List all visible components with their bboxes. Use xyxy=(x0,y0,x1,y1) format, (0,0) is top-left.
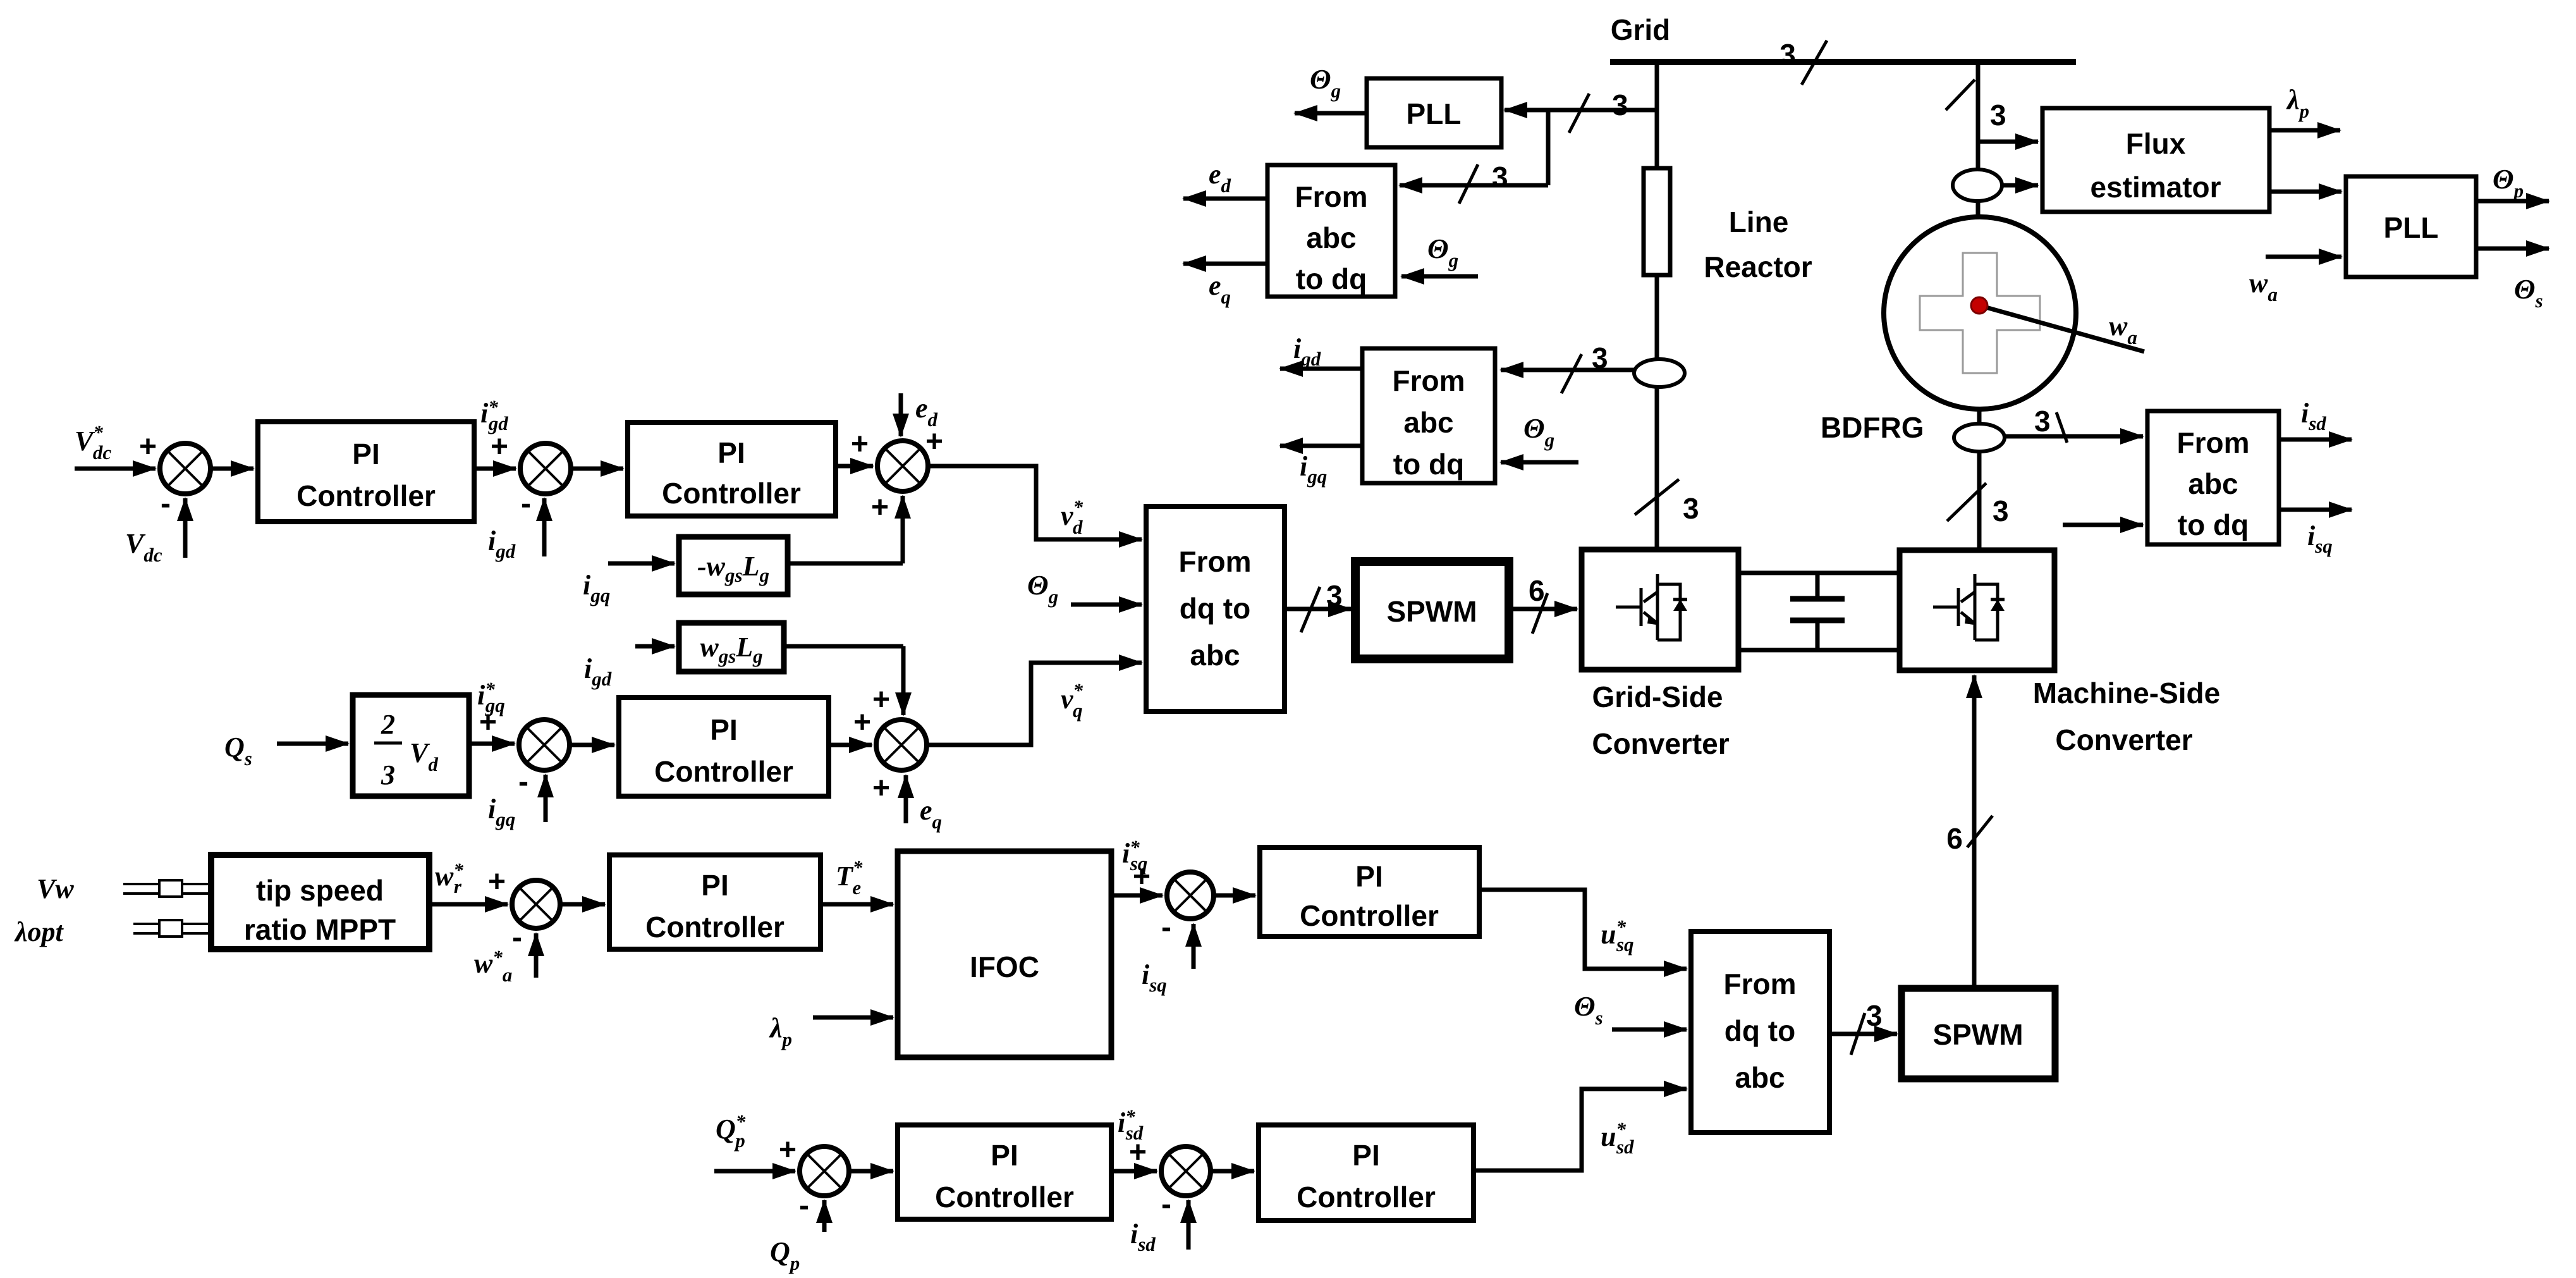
wire theta_p output xyxy=(2476,199,2549,204)
svg-text:Converter: Converter xyxy=(2055,723,2192,756)
svg-text:-: - xyxy=(512,921,522,954)
node summing junction Vdc xyxy=(160,443,211,494)
component IGBT icon MSC xyxy=(1933,574,2005,640)
wire current measurement to From-abc box with 3 marker xyxy=(1501,341,1634,393)
wire flux estimator to PLL2 xyxy=(2269,190,2341,194)
wire junction stub down from PLL tap xyxy=(1546,110,1551,185)
node summing junction eq xyxy=(876,720,927,770)
svg-text:Machine-Side: Machine-Side xyxy=(2033,677,2221,710)
component CT oval machine lower xyxy=(1954,424,2005,452)
node summing junction Qp xyxy=(800,1146,849,1196)
svg-text:PI: PI xyxy=(1355,860,1383,893)
svg-text:From: From xyxy=(1393,364,1465,397)
label 3 marker on grid drop xyxy=(1635,479,1699,525)
block 2/3 Vd gain xyxy=(353,695,469,796)
svg-text:3: 3 xyxy=(2034,405,2051,438)
block PI Controller (isq loop) xyxy=(1260,847,1479,937)
svg-text:abc: abc xyxy=(1735,1061,1785,1094)
wire theta_g input xyxy=(1071,603,1142,607)
wire Qp* input xyxy=(714,1169,795,1174)
wire PI1 to igd sum xyxy=(474,467,516,471)
component CT oval machine upper xyxy=(1953,169,2002,201)
svg-text:PI: PI xyxy=(701,869,728,902)
wire From-dq-abc output to SPWM with 3 marker xyxy=(1285,579,1351,632)
svg-text:3: 3 xyxy=(1993,495,2009,527)
wire i_gq output xyxy=(1280,444,1362,448)
wire i_sd output xyxy=(2279,438,2352,442)
svg-text:+: + xyxy=(491,430,508,464)
wire gain to igq sum xyxy=(469,742,515,746)
wire PI Q to eq sum xyxy=(829,743,872,747)
svg-text:PI: PI xyxy=(717,436,745,469)
svg-text:Controller: Controller xyxy=(645,911,784,943)
wire lower input into machine From-abc box xyxy=(2063,523,2143,527)
wire w_a input to PLL2 xyxy=(2266,255,2341,259)
svg-text:abc: abc xyxy=(1190,639,1240,672)
svg-text:+: + xyxy=(1133,860,1151,894)
svg-text:From: From xyxy=(1179,545,1252,578)
svg-text:IFOC: IFOC xyxy=(970,950,1039,983)
svg-text:Line: Line xyxy=(1729,206,1789,238)
label Line Reactor xyxy=(1704,206,1812,283)
svg-text:+: + xyxy=(488,865,506,899)
wire vd* to From-dq-abc xyxy=(928,466,1142,539)
wire speed sum to PI xyxy=(560,902,605,907)
node summing junction speed xyxy=(512,880,560,928)
wire e_d output xyxy=(1183,197,1267,201)
machine rotor cross xyxy=(1920,253,2040,373)
wire current tap oval to flux estimator xyxy=(2002,183,2038,188)
label Grid-Side Converter xyxy=(1592,680,1729,760)
svg-text:3: 3 xyxy=(1326,579,1343,612)
svg-text:estimator: estimator xyxy=(2090,171,2221,204)
svg-text:2: 2 xyxy=(381,709,395,740)
wire theta_g input to current box xyxy=(1501,460,1578,465)
wire lambda_p output xyxy=(2269,128,2340,133)
wire e_q input up into eq sum xyxy=(904,775,908,823)
block IFOC xyxy=(898,851,1111,1057)
svg-text:3: 3 xyxy=(1492,161,1508,194)
wire SPWM to GSC with 6 marker xyxy=(1509,574,1577,634)
svg-text:PI: PI xyxy=(710,713,737,746)
wire tap to PLL with 3-phase marker xyxy=(1505,89,1657,133)
svg-text:λopt: λopt xyxy=(14,916,64,947)
block From abc to dq (grid currents) xyxy=(1362,348,1495,483)
svg-text:3: 3 xyxy=(1592,341,1608,374)
block PI Controller (igq loop) xyxy=(619,697,829,796)
svg-text:From: From xyxy=(1295,180,1368,213)
label 3 marker on machine feeder xyxy=(1946,80,2006,132)
svg-text:Controller: Controller xyxy=(1297,1181,1436,1213)
block From abc to dq (voltages) xyxy=(1267,165,1395,297)
wire e_d input down into ed sum xyxy=(899,393,903,436)
node summing junction igq xyxy=(519,720,570,770)
component IGBT icon GSC xyxy=(1616,574,1687,640)
svg-text:Flux: Flux xyxy=(2126,127,2186,160)
svg-text:abc: abc xyxy=(1403,406,1453,439)
wire Vdc feedback up xyxy=(183,498,188,558)
wire BDFRG stator drop to MSC xyxy=(1977,409,1982,550)
block PI Controller (igd loop) xyxy=(628,422,836,516)
svg-text:Reactor: Reactor xyxy=(1704,250,1812,283)
block tip speed ratio MPPT xyxy=(211,855,429,949)
block PI Controller (Qp loop) xyxy=(898,1125,1111,1219)
wire igq sum to PI controller Q xyxy=(570,743,614,747)
wire lambda_p input xyxy=(813,1016,893,1020)
wire isd feedback up xyxy=(1187,1200,1191,1250)
svg-text:SPWM: SPWM xyxy=(1932,1018,2023,1051)
svg-text:-: - xyxy=(521,487,531,520)
svg-text:3: 3 xyxy=(1779,38,1796,71)
wire igd feedback up xyxy=(542,498,547,556)
svg-text:Grid-Side: Grid-Side xyxy=(1592,680,1723,713)
block From dq to abc (machine) xyxy=(1691,931,1829,1133)
block -wgsLg xyxy=(679,537,788,594)
connector lambda_opt double line xyxy=(133,920,213,937)
svg-text:SPWM: SPWM xyxy=(1386,595,1477,628)
svg-text:PI: PI xyxy=(991,1139,1018,1172)
wire machine current to From-abc box with 3 marker xyxy=(2005,405,2143,443)
svg-text:-: - xyxy=(1161,1188,1171,1221)
wire DC link bottom rail xyxy=(1738,648,1900,653)
svg-text:3: 3 xyxy=(1866,999,1883,1032)
svg-text:3: 3 xyxy=(1990,99,2006,132)
svg-text:-: - xyxy=(1161,911,1171,944)
svg-text:Converter: Converter xyxy=(1592,727,1729,760)
svg-text:+: + xyxy=(851,427,869,461)
wire -wgsLg output to ed sum xyxy=(788,496,903,563)
block PI Controller (isd loop) xyxy=(1259,1125,1474,1220)
svg-text:6: 6 xyxy=(1529,574,1545,607)
wire PI2 to ed sum xyxy=(836,464,873,469)
svg-text:3: 3 xyxy=(1612,89,1628,121)
svg-text:+: + xyxy=(853,706,871,739)
block PLL machine xyxy=(2346,176,2476,277)
svg-text:ratio MPPT: ratio MPPT xyxy=(244,913,396,946)
svg-text:PLL: PLL xyxy=(2384,211,2439,244)
wire Qp sum to PI xyxy=(849,1169,893,1174)
wire PI Qp to isd sum xyxy=(1111,1169,1157,1174)
svg-text:to dq: to dq xyxy=(1296,262,1367,295)
wire PI speed to IFOC xyxy=(821,902,893,907)
svg-text:-: - xyxy=(518,765,528,799)
wire u*sq to From-dq-abc machine xyxy=(1479,890,1687,969)
svg-text:PLL: PLL xyxy=(1407,97,1462,130)
wire isq sum to PI xyxy=(1214,894,1255,898)
block SPWM grid side xyxy=(1355,562,1509,659)
wire isq feedback up xyxy=(1192,924,1196,969)
label 3 marker on MSC feeder xyxy=(1947,483,2009,527)
svg-text:+: + xyxy=(872,771,890,805)
wire sum to PI controller 1 xyxy=(211,467,253,471)
svg-text:to dq: to dq xyxy=(2178,508,2249,541)
svg-text:From: From xyxy=(1724,968,1797,1000)
wire IFOC to isq sum xyxy=(1111,894,1163,898)
svg-text:6: 6 xyxy=(1946,822,1963,855)
node summing junction igd xyxy=(520,443,571,494)
wire igd sum to PI controller 2 xyxy=(571,467,623,471)
wire box4 to SPWM2 with 3 marker xyxy=(1829,999,1897,1055)
svg-text:PI: PI xyxy=(1352,1139,1379,1172)
wire isd sum to PI xyxy=(1211,1169,1254,1174)
wire grid bus xyxy=(1610,59,2076,65)
wire igq into -wgsLg block xyxy=(608,562,675,566)
wire Vdc* input xyxy=(75,467,156,471)
svg-text:+: + xyxy=(1129,1136,1147,1169)
capacitor DC link xyxy=(1790,573,1845,650)
wire theta_s input xyxy=(1612,1028,1687,1032)
svg-text:Controller: Controller xyxy=(1300,899,1439,932)
wire vq* to From-dq-abc xyxy=(927,663,1142,745)
svg-text:Controller: Controller xyxy=(935,1181,1074,1213)
svg-text:+: + xyxy=(925,425,943,458)
wire wgsLg output to eq sum xyxy=(784,646,903,715)
svg-text:Controller: Controller xyxy=(654,755,793,788)
wire i_sq output xyxy=(2279,508,2352,512)
wire SPWM2 up into MSC with 6 marker xyxy=(1946,675,1993,988)
block PI Controller (speed loop) xyxy=(609,855,821,949)
svg-text:dq to: dq to xyxy=(1180,592,1250,625)
wire DC link top rail xyxy=(1738,571,1900,575)
wire i_gd output xyxy=(1280,367,1362,371)
svg-text:abc: abc xyxy=(1306,221,1356,254)
wire theta_g output of PLL xyxy=(1295,111,1367,116)
svg-text:w*r: w*r xyxy=(435,859,463,897)
component Line Reactor symbol xyxy=(1644,168,1670,275)
component CT oval on grid feeder xyxy=(1634,359,1685,387)
machine shaft line xyxy=(1979,305,2144,352)
block PLL grid xyxy=(1367,78,1501,147)
node summing junction isq xyxy=(1167,872,1214,919)
svg-text:+: + xyxy=(779,1133,797,1167)
block Grid-Side Converter xyxy=(1582,550,1738,670)
wire igq feedback up xyxy=(544,775,548,822)
svg-text:Controller: Controller xyxy=(662,477,801,510)
svg-text:tip speed: tip speed xyxy=(256,874,384,907)
wire theta_s output xyxy=(2476,247,2549,251)
wire into From-abc-to-dq voltage box with 3 marker xyxy=(1400,161,1548,204)
wire theta_g input to voltage box xyxy=(1401,274,1478,279)
wire grid vertical drop to Grid-Side Converter xyxy=(1655,62,1659,550)
block wgsLg xyxy=(679,623,784,672)
svg-text:abc: abc xyxy=(2188,467,2238,500)
block From dq to abc (grid) xyxy=(1146,507,1285,711)
svg-text:Vw: Vw xyxy=(37,873,74,904)
node summing junction ed xyxy=(877,441,928,491)
wire Qs input xyxy=(277,742,348,746)
svg-text:+: + xyxy=(139,430,157,464)
wire u*sd to From-dq-abc machine xyxy=(1474,1089,1687,1170)
svg-text:BDFRG: BDFRG xyxy=(1821,411,1924,444)
svg-text:Grid: Grid xyxy=(1611,13,1671,46)
svg-text:-: - xyxy=(161,487,171,520)
wire w_a feedback up xyxy=(534,933,539,978)
svg-text:3: 3 xyxy=(1683,492,1699,525)
svg-text:dq to: dq to xyxy=(1724,1014,1795,1047)
block Flux estimator xyxy=(2042,108,2269,212)
wire voltage tap to flux estimator xyxy=(1978,140,2038,144)
connector Vw double line xyxy=(123,880,213,897)
svg-text:Controller: Controller xyxy=(296,479,436,512)
node summing junction isd xyxy=(1161,1146,1211,1196)
label 3-phase marker on bus xyxy=(1779,38,1827,85)
svg-text:From: From xyxy=(2177,426,2250,459)
svg-text:+: + xyxy=(871,491,889,524)
machine BDFRG circle xyxy=(1884,217,2076,409)
machine rotor red dot xyxy=(1971,297,1987,314)
wire igd into wgsLg block xyxy=(635,644,675,649)
label Machine-Side Converter xyxy=(2033,677,2221,756)
wire Qp feedback up xyxy=(822,1200,827,1232)
svg-text:+: + xyxy=(479,706,497,739)
block Machine-Side Converter xyxy=(1900,550,2054,670)
block SPWM machine side xyxy=(1901,988,2055,1079)
block PI Controller (Vdc loop) xyxy=(258,422,474,522)
svg-text:3: 3 xyxy=(381,759,395,790)
svg-text:+: + xyxy=(872,683,890,716)
wire MPPT to speed sum xyxy=(429,902,508,907)
block From abc to dq (machine currents) xyxy=(2147,411,2279,544)
svg-text:to dq: to dq xyxy=(1393,448,1464,481)
wire machine bus vertical from grid bus xyxy=(1976,62,1981,218)
wire e_q output xyxy=(1183,262,1267,266)
svg-text:-: - xyxy=(799,1189,809,1222)
svg-text:PI: PI xyxy=(352,438,379,470)
